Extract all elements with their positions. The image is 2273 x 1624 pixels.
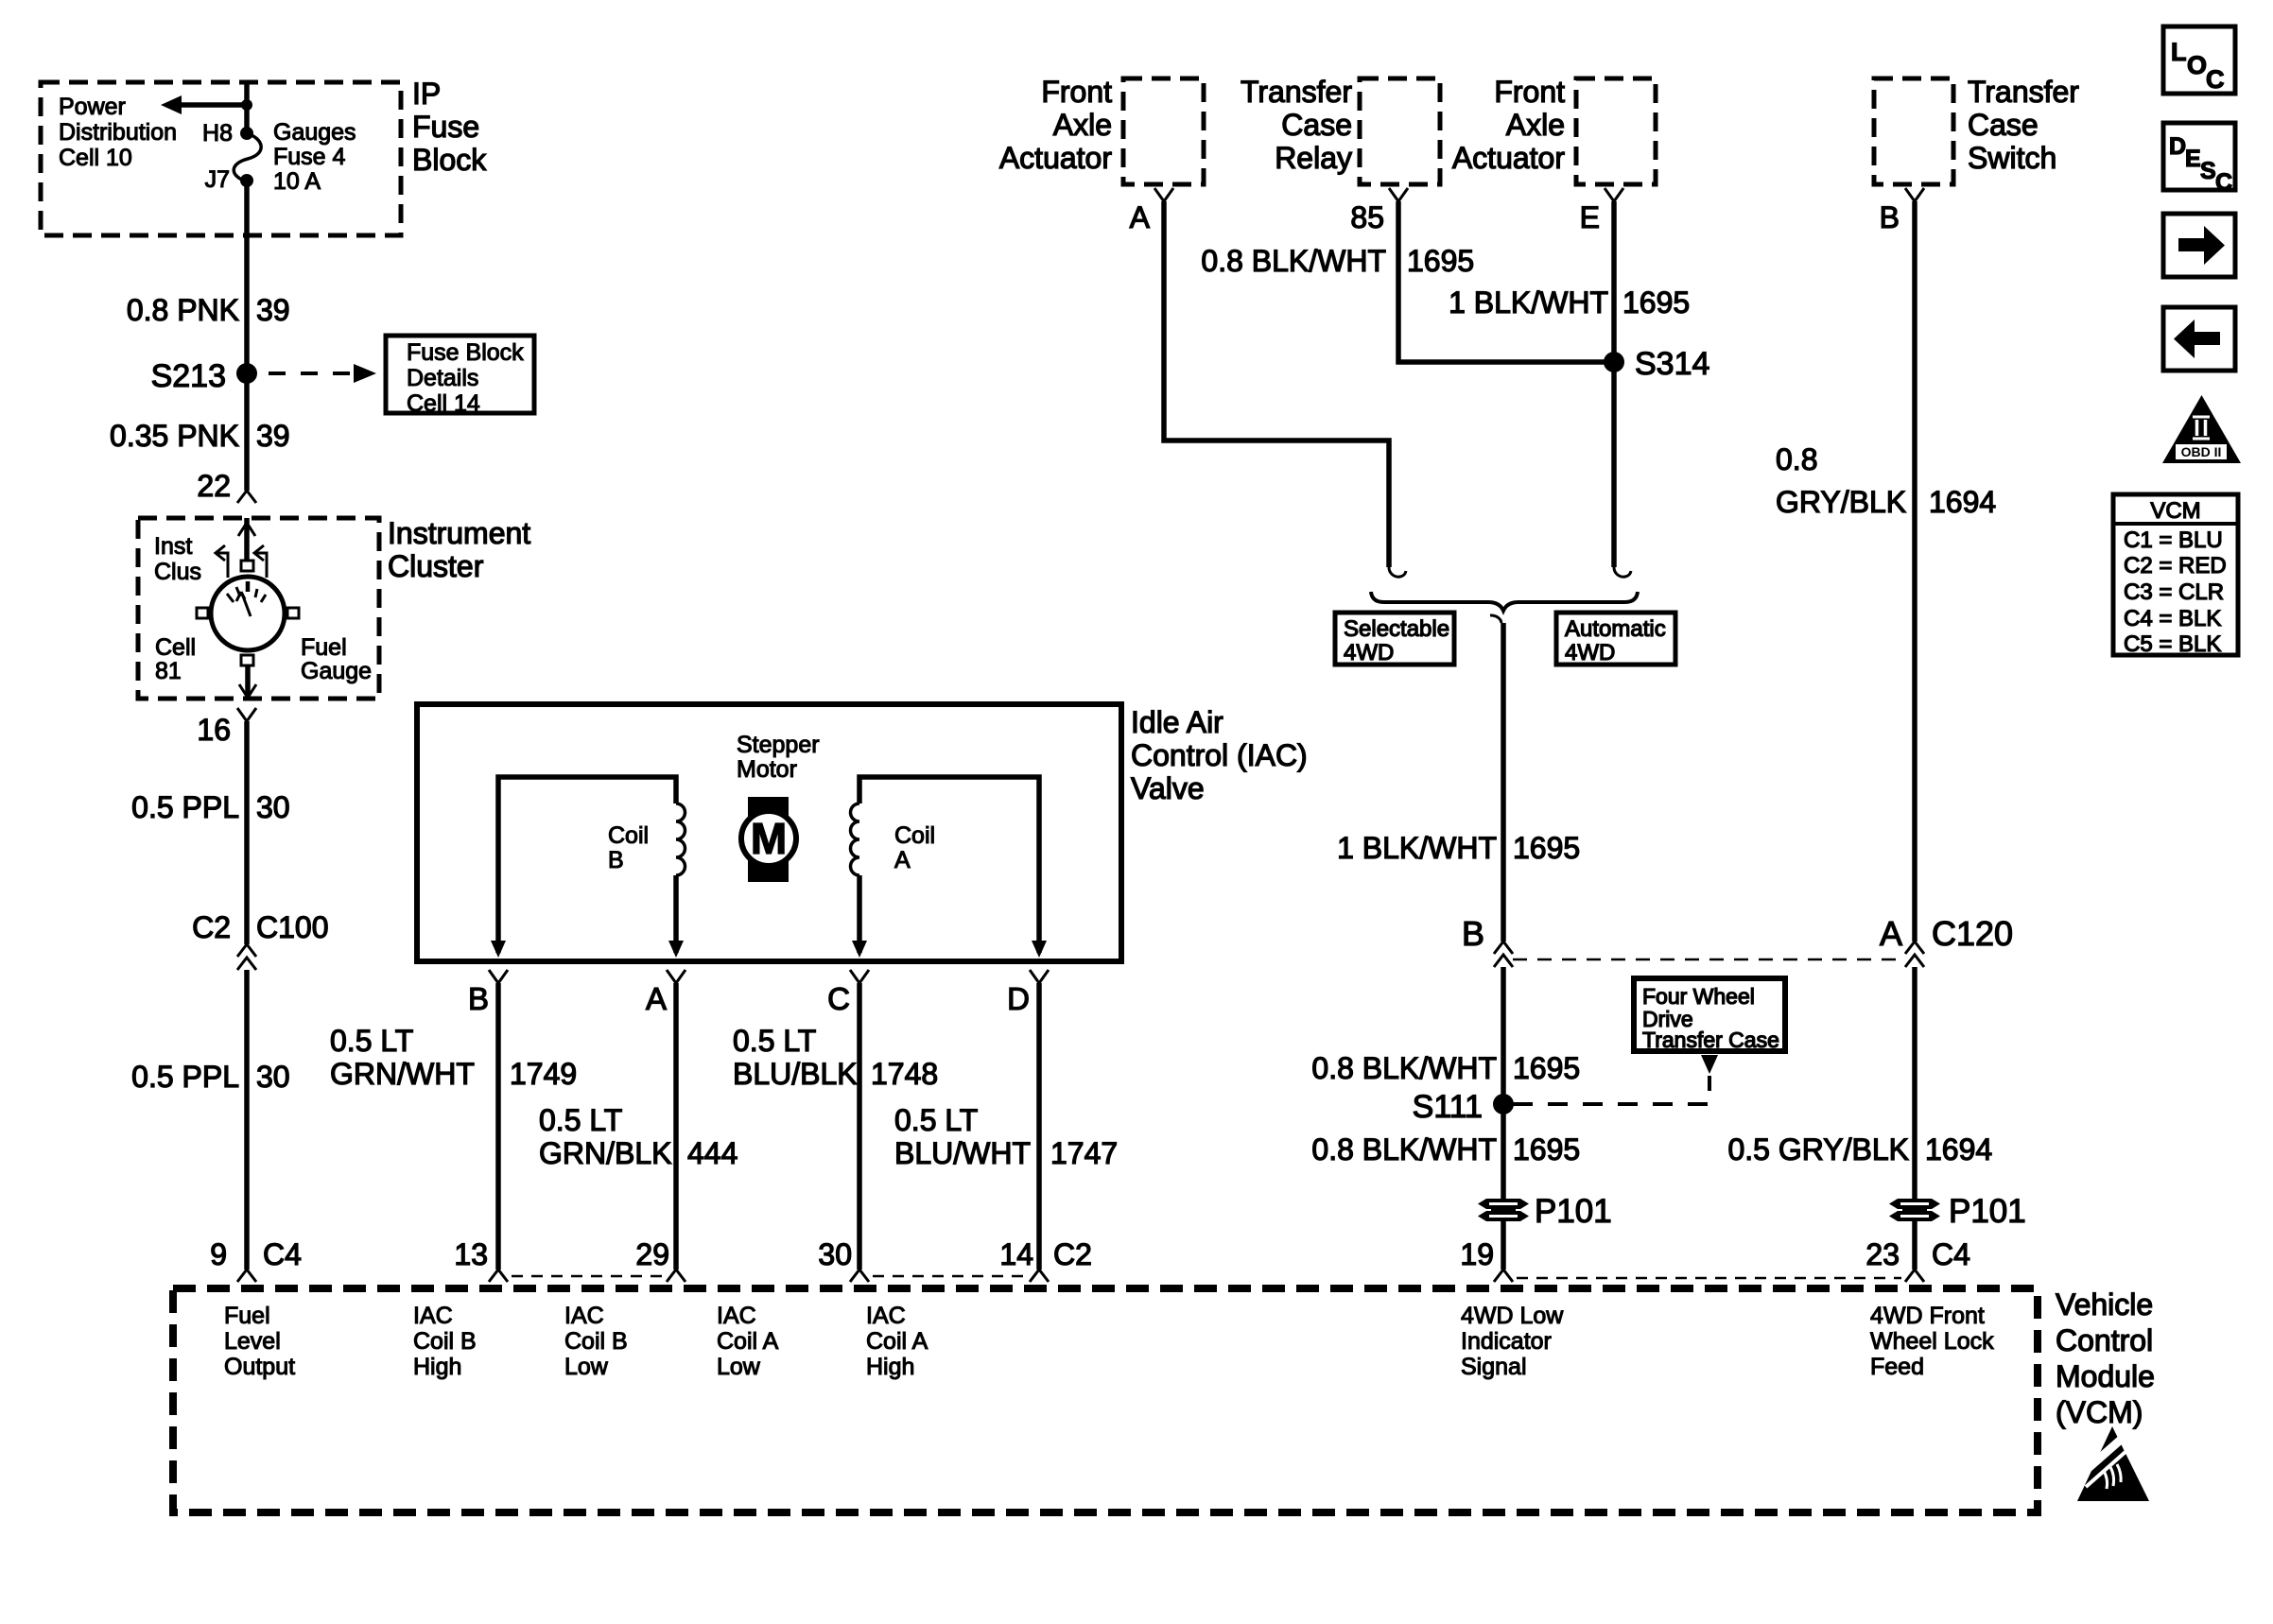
- hook at wire E end: [1614, 567, 1631, 577]
- wire label 0.5 LT GRN/WHT 1749: [330, 1024, 577, 1091]
- svg-text:0.8 BLK/WHT: 0.8 BLK/WHT: [1311, 1051, 1497, 1085]
- dashed arrow to fuse block details: [269, 364, 376, 383]
- svg-text:Transfer Case: Transfer Case: [1642, 1028, 1779, 1052]
- IAC pin letters: [468, 981, 1030, 1016]
- wire label 0.8 BLK/WHT 1695 above S111: [1311, 1051, 1580, 1085]
- fuel gauge body: [197, 561, 299, 665]
- wire out of fuel gauge with down arrow: [239, 665, 256, 698]
- wire transfer case switch to C120: [1912, 201, 1917, 942]
- svg-text:4WD: 4WD: [1565, 640, 1615, 665]
- J7 pin label: [205, 166, 230, 193]
- svg-text:Coil A: Coil A: [717, 1328, 779, 1355]
- svg-text:C100: C100: [256, 910, 329, 944]
- svg-text:A: A: [1130, 200, 1151, 234]
- svg-text:High: High: [413, 1354, 461, 1380]
- svg-text:0.5 LT: 0.5 LT: [539, 1103, 622, 1137]
- wire C120 B to VCM 19: [1501, 967, 1506, 1270]
- svg-text:0.5 GRY/BLK: 0.5 GRY/BLK: [1727, 1132, 1909, 1166]
- svg-text:1695: 1695: [1513, 1132, 1580, 1166]
- wire label 0.8 BLK/WHT 1695 top: [1201, 244, 1474, 278]
- svg-text:A: A: [646, 981, 667, 1016]
- svg-text:0.35 PNK: 0.35 PNK: [110, 419, 239, 453]
- coil B inductor: [676, 803, 685, 875]
- svg-text:C2: C2: [1053, 1237, 1092, 1271]
- svg-text:VCM: VCM: [2150, 498, 2200, 524]
- Front Axle Actuator connector box 1: [1123, 78, 1204, 184]
- Instrument Cluster dashed box: [138, 518, 379, 699]
- svg-text:0.8 BLK/WHT: 0.8 BLK/WHT: [1311, 1132, 1497, 1166]
- svg-text:High: High: [866, 1354, 914, 1380]
- svg-text:1694: 1694: [1925, 1132, 1992, 1166]
- svg-text:GRN/BLK: GRN/BLK: [539, 1136, 671, 1170]
- svg-text:29: 29: [635, 1237, 669, 1271]
- connector C120 double chevron left: [1494, 942, 1513, 967]
- Transfer Case Switch label: [1968, 75, 2079, 175]
- svg-text:C2: C2: [192, 910, 231, 944]
- wire label 1 BLK/WHT 1695 center: [1337, 831, 1580, 865]
- VCM pin number labels: [210, 1237, 1970, 1271]
- svg-text:Signal: Signal: [1461, 1354, 1527, 1380]
- svg-text:C4: C4: [1932, 1237, 1970, 1271]
- Transfer Case Relay connector box: [1360, 78, 1440, 184]
- IAC Coil B High pin label: [413, 1303, 477, 1380]
- connector chevron pin 85: [1389, 188, 1408, 201]
- IP Fuse Block dashed box: [41, 82, 401, 235]
- IAC Coil B Low pin label: [564, 1303, 628, 1380]
- svg-text:B: B: [608, 847, 624, 873]
- 4WD Low Indicator Signal pin label: [1461, 1303, 1564, 1380]
- svg-text:Clus: Clus: [154, 559, 201, 585]
- svg-text:0.8 BLK/WHT: 0.8 BLK/WHT: [1201, 244, 1386, 278]
- svg-text:Case: Case: [1281, 108, 1352, 142]
- svg-text:Details: Details: [407, 365, 478, 391]
- svg-text:Fuse Block: Fuse Block: [407, 339, 524, 366]
- svg-text:Cell 14: Cell 14: [407, 390, 480, 417]
- IAC valve box: [417, 704, 1121, 961]
- wire 16 to C100: [244, 721, 250, 944]
- svg-text:4WD Low: 4WD Low: [1461, 1303, 1564, 1329]
- svg-text:19: 19: [1460, 1237, 1494, 1271]
- svg-text:IAC: IAC: [717, 1303, 756, 1329]
- svg-text:S111: S111: [1413, 1089, 1483, 1125]
- IP Fuse Block label: [412, 77, 487, 177]
- svg-text:Control: Control: [2056, 1323, 2153, 1357]
- VCM dashed box: [173, 1288, 2038, 1512]
- svg-text:O: O: [2187, 51, 2207, 79]
- svg-text:A: A: [1880, 914, 1902, 953]
- J7 terminal dot: [240, 174, 253, 187]
- arrow to power distribution: [161, 95, 247, 114]
- VCM pin chevron 9: [237, 1270, 256, 1282]
- svg-text:85: 85: [1350, 200, 1384, 234]
- wire label 0.35 PNK 39: [110, 419, 290, 453]
- svg-text:0.5 LT: 0.5 LT: [330, 1024, 413, 1058]
- Transfer Case Switch connector box: [1874, 78, 1953, 184]
- 4WD Front Wheel Lock Feed pin label: [1870, 1303, 1994, 1380]
- wire from fuse block top edge to fuse H8: [244, 83, 250, 133]
- IAC Coil A High pin label: [866, 1303, 928, 1380]
- ESD sensitive symbol: [2074, 1426, 2149, 1501]
- pin 85 label: [1350, 200, 1384, 234]
- VCM pin chevron 13: [489, 1270, 508, 1282]
- svg-text:BLU/WHT: BLU/WHT: [894, 1136, 1031, 1170]
- pointer triangle from four wheel drive box: [1701, 1055, 1718, 1074]
- OBD II legend icon: [2162, 395, 2241, 463]
- svg-text:H8: H8: [202, 120, 233, 147]
- coil B loop wiring: [491, 777, 684, 958]
- fuse F4 element: [234, 133, 261, 181]
- LOC legend icon: [2163, 26, 2235, 94]
- coil A loop wiring: [852, 777, 1047, 958]
- svg-text:Cluster: Cluster: [388, 549, 484, 583]
- svg-text:Axle: Axle: [1506, 108, 1565, 142]
- connector chevron pin 22: [237, 491, 256, 503]
- svg-text:23: 23: [1865, 1237, 1900, 1271]
- wire IAC C to VCM 30: [857, 983, 862, 1270]
- Fuel Gauge label: [301, 634, 372, 684]
- svg-text:Fuse 4: Fuse 4: [273, 144, 346, 170]
- brace under actuator wires: [1371, 592, 1638, 611]
- svg-text:Wheel Lock: Wheel Lock: [1870, 1328, 1994, 1355]
- svg-text:IAC: IAC: [413, 1303, 453, 1329]
- Transfer Case Relay label: [1241, 75, 1352, 175]
- svg-text:B: B: [1880, 200, 1900, 234]
- svg-text:C: C: [2215, 169, 2232, 196]
- wire label 0.5 PPL 30 lower: [131, 1060, 289, 1094]
- svg-text:Case: Case: [1968, 108, 2039, 142]
- svg-text:Level: Level: [224, 1328, 281, 1355]
- svg-text:A: A: [894, 847, 911, 873]
- wire C100 to VCM pin 9: [244, 970, 250, 1270]
- pin E label: [1580, 200, 1600, 234]
- svg-text:1695: 1695: [1622, 285, 1690, 320]
- svg-text:IAC: IAC: [866, 1303, 906, 1329]
- svg-text:C: C: [827, 981, 850, 1016]
- svg-text:Coil: Coil: [608, 822, 649, 849]
- wire front axle actuator E: [1611, 201, 1617, 567]
- wire into fuel gauge with up arrow: [238, 518, 255, 561]
- Front Axle Actuator connector box 2: [1576, 78, 1656, 184]
- svg-text:Cell: Cell: [155, 634, 196, 661]
- IAC pin chevron A: [667, 970, 685, 983]
- VCM pin chevron 23: [1905, 1270, 1924, 1282]
- Gauges Fuse 4 10 A label: [273, 119, 356, 195]
- fuel gauge needle: [236, 592, 251, 616]
- connector dashed line 30 to 14: [873, 1275, 1026, 1278]
- wire label 0.5 PPL 30: [131, 790, 289, 824]
- svg-text:Control (IAC): Control (IAC): [1131, 738, 1308, 772]
- svg-text:Output: Output: [224, 1354, 295, 1380]
- svg-text:0.5 LT: 0.5 LT: [733, 1024, 816, 1058]
- wire front axle actuator A: [1164, 201, 1389, 567]
- svg-text:1 BLK/WHT: 1 BLK/WHT: [1449, 285, 1608, 320]
- wire label 1 BLK/WHT 1695: [1449, 285, 1690, 320]
- splice S314: [1604, 346, 1709, 382]
- svg-text:C2 = RED: C2 = RED: [2124, 553, 2227, 579]
- wire below brace with curl: [1490, 615, 1503, 942]
- svg-text:10 A: 10 A: [273, 168, 321, 195]
- pin A label: [1130, 200, 1151, 234]
- svg-text:0.8 PNK: 0.8 PNK: [127, 293, 239, 327]
- svg-text:14: 14: [999, 1237, 1033, 1271]
- wire relay 85 to S314: [1398, 201, 1607, 362]
- branch arrow right to other gauges: [254, 545, 267, 578]
- wire label 0.8 BLK/WHT 1695 below S111: [1311, 1132, 1580, 1166]
- IAC pin chevron B: [489, 970, 508, 983]
- svg-text:Power: Power: [59, 94, 126, 120]
- wire IAC A to VCM 29: [673, 983, 679, 1270]
- VCM pin chevron 14: [1030, 1270, 1049, 1282]
- svg-text:Module: Module: [2056, 1359, 2155, 1393]
- svg-text:1695: 1695: [1513, 1051, 1580, 1085]
- Coil A label: [894, 822, 935, 873]
- junction node to power distribution: [241, 99, 252, 111]
- connector chevron pin B switch: [1905, 188, 1924, 201]
- wire label 0.5 LT BLU/WHT 1747: [894, 1103, 1118, 1170]
- IAC pin chevron C: [850, 970, 869, 983]
- svg-text:0.5 PPL: 0.5 PPL: [131, 790, 239, 824]
- Fuse Block Details Cell 14 box: [386, 336, 534, 417]
- svg-text:Gauges: Gauges: [273, 119, 356, 146]
- Power Distribution Cell 10 label: [59, 94, 177, 171]
- svg-text:Cell 10: Cell 10: [59, 145, 132, 171]
- DESC legend icon: [2163, 123, 2235, 196]
- Stepper Motor label: [737, 732, 820, 783]
- svg-text:Coil B: Coil B: [564, 1328, 628, 1355]
- Fuel Level Output pin label: [224, 1303, 295, 1380]
- svg-text:IAC: IAC: [564, 1303, 604, 1329]
- svg-text:30: 30: [256, 1060, 290, 1094]
- svg-text:Instrument: Instrument: [388, 516, 530, 550]
- svg-text:1694: 1694: [1929, 485, 1996, 519]
- svg-text:GRY/BLK: GRY/BLK: [1776, 485, 1906, 519]
- Instrument Cluster label: [388, 516, 530, 583]
- svg-text:Fuel: Fuel: [224, 1303, 270, 1329]
- Four Wheel Drive Transfer Case box: [1634, 978, 1785, 1052]
- svg-text:Transfer: Transfer: [1241, 75, 1352, 109]
- svg-text:S: S: [2200, 158, 2216, 184]
- connector C120 dashed line: [1513, 959, 1906, 961]
- svg-text:1748: 1748: [871, 1057, 938, 1091]
- svg-text:1695: 1695: [1513, 831, 1580, 865]
- svg-text:Axle: Axle: [1053, 108, 1112, 142]
- svg-text:IP: IP: [412, 77, 441, 111]
- svg-text:S213: S213: [151, 358, 226, 394]
- svg-text:Gauge: Gauge: [301, 658, 372, 684]
- svg-text:Stepper: Stepper: [737, 732, 820, 758]
- svg-text:C1 = BLU: C1 = BLU: [2124, 527, 2223, 553]
- Vehicle Control Module (VCM) label: [2056, 1287, 2155, 1429]
- VCM pin chevron 19: [1494, 1270, 1513, 1282]
- wire C120 A to VCM 23: [1912, 967, 1917, 1270]
- svg-text:0.8: 0.8: [1776, 442, 1817, 476]
- H8 pin label: [202, 120, 233, 147]
- branch arrow left to other gauges: [216, 545, 228, 578]
- splice S213: [151, 358, 257, 394]
- stepper motor M: [741, 797, 796, 882]
- svg-text:OBD II: OBD II: [2181, 444, 2222, 459]
- connector dashed line 19 to 23: [1517, 1277, 1901, 1280]
- pin A label at C120: [1880, 914, 1902, 953]
- pin B label at C120: [1462, 914, 1484, 953]
- svg-text:C: C: [2206, 65, 2225, 94]
- svg-text:Relay: Relay: [1275, 141, 1352, 175]
- VCM pin chevron 30: [850, 1270, 869, 1282]
- Automatic 4WD box: [1556, 613, 1675, 665]
- pin 22 label: [197, 469, 231, 503]
- Front Axle Actuator label 2: [1452, 75, 1566, 175]
- svg-text:S314: S314: [1635, 346, 1709, 382]
- svg-text:Coil B: Coil B: [413, 1328, 477, 1355]
- IAC Coil A Low pin label: [717, 1303, 779, 1380]
- pass-through grommet P101 right: [1889, 1193, 2026, 1230]
- svg-text:Four Wheel: Four Wheel: [1642, 984, 1755, 1009]
- svg-text:39: 39: [256, 419, 290, 453]
- splice S111: [1413, 1089, 1514, 1125]
- svg-text:81: 81: [155, 658, 182, 684]
- svg-text:Front: Front: [1494, 75, 1565, 109]
- svg-text:Actuator: Actuator: [1452, 141, 1566, 175]
- svg-text:444: 444: [687, 1136, 737, 1170]
- wire label 0.5 GRY/BLK 1694: [1727, 1132, 1992, 1166]
- svg-text:30: 30: [818, 1237, 852, 1271]
- Idle Air Control (IAC) Valve label: [1131, 705, 1308, 805]
- forward arrow legend icon: [2163, 214, 2235, 277]
- back arrow legend icon: [2163, 307, 2235, 371]
- svg-text:C4: C4: [263, 1237, 302, 1271]
- wire IAC D to VCM 14: [1036, 983, 1042, 1270]
- svg-text:16: 16: [197, 713, 231, 747]
- svg-text:Selectable: Selectable: [1344, 616, 1449, 642]
- svg-text:39: 39: [256, 293, 290, 327]
- svg-text:Fuel: Fuel: [301, 634, 347, 661]
- svg-text:Actuator: Actuator: [999, 141, 1113, 175]
- pin B label switch: [1880, 200, 1900, 234]
- svg-text:1747: 1747: [1050, 1136, 1118, 1170]
- connector chevron pin 16: [237, 708, 256, 721]
- svg-text:Motor: Motor: [737, 756, 797, 783]
- pin 16 label: [197, 713, 231, 747]
- svg-text:1695: 1695: [1407, 244, 1474, 278]
- fuel gauge dial ticks: [227, 581, 266, 602]
- svg-text:Inst: Inst: [154, 533, 192, 560]
- svg-text:M: M: [751, 814, 787, 863]
- VCM pin chevron 29: [667, 1270, 685, 1282]
- svg-text:Indicator: Indicator: [1461, 1328, 1552, 1355]
- connector chevron pin A: [1154, 188, 1173, 201]
- svg-text:Automatic: Automatic: [1565, 616, 1666, 642]
- svg-text:Distribution: Distribution: [59, 119, 177, 146]
- svg-text:4WD: 4WD: [1344, 640, 1394, 665]
- dashed link S111 to transfer case note: [1513, 1076, 1709, 1104]
- wire label 0.5 LT BLU/BLK 1748: [733, 1024, 938, 1091]
- svg-text:1 BLK/WHT: 1 BLK/WHT: [1337, 831, 1497, 865]
- svg-text:4WD Front: 4WD Front: [1870, 1303, 1985, 1329]
- svg-text:9: 9: [210, 1237, 227, 1271]
- svg-text:Feed: Feed: [1870, 1354, 1924, 1380]
- Selectable 4WD box: [1335, 613, 1454, 665]
- svg-text:E: E: [1580, 200, 1600, 234]
- svg-text:1749: 1749: [510, 1057, 577, 1091]
- Cell 81 label: [155, 634, 196, 684]
- svg-text:0.5 LT: 0.5 LT: [894, 1103, 978, 1137]
- svg-text:D: D: [2169, 133, 2186, 160]
- svg-text:Switch: Switch: [1968, 141, 2056, 175]
- svg-text:J7: J7: [205, 166, 230, 193]
- wire J7 to connector 22: [244, 181, 250, 491]
- svg-text:Low: Low: [564, 1354, 609, 1380]
- svg-text:Block: Block: [412, 143, 487, 177]
- connector C100 double chevron: [237, 944, 256, 970]
- svg-text:GRN/WHT: GRN/WHT: [330, 1057, 475, 1091]
- svg-text:Coil A: Coil A: [866, 1328, 928, 1355]
- svg-text:B: B: [1462, 914, 1484, 953]
- wire label 0.8 PNK 39: [127, 293, 290, 327]
- svg-text:C3 = CLR: C3 = CLR: [2124, 579, 2224, 605]
- svg-text:22: 22: [197, 469, 231, 503]
- svg-text:30: 30: [256, 790, 290, 824]
- connector C120 double chevron right: [1905, 942, 1924, 967]
- svg-text:P101: P101: [1535, 1193, 1612, 1230]
- svg-text:Coil: Coil: [894, 822, 935, 849]
- wire label 0.8 GRY/BLK 1694: [1776, 442, 1996, 519]
- svg-text:Fuse: Fuse: [412, 110, 479, 144]
- svg-text:E: E: [2185, 146, 2201, 172]
- svg-text:C120: C120: [1932, 914, 2013, 953]
- svg-text:Valve: Valve: [1131, 771, 1205, 805]
- wire IAC B to VCM 13: [495, 983, 501, 1270]
- wire label 0.5 LT GRN/BLK 444: [539, 1103, 737, 1170]
- svg-text:0.5 PPL: 0.5 PPL: [131, 1060, 239, 1094]
- VCM connector color legend table: [2113, 494, 2238, 657]
- svg-text:C4 = BLK: C4 = BLK: [2124, 606, 2221, 631]
- svg-text:13: 13: [454, 1237, 488, 1271]
- connector chevron pin E: [1605, 188, 1623, 201]
- svg-text:Front: Front: [1041, 75, 1112, 109]
- svg-text:D: D: [1007, 981, 1030, 1016]
- svg-text:Transfer: Transfer: [1968, 75, 2079, 109]
- svg-text:Vehicle: Vehicle: [2056, 1287, 2153, 1322]
- Coil B label: [608, 822, 649, 873]
- svg-text:(VCM): (VCM): [2056, 1395, 2143, 1429]
- svg-text:B: B: [468, 981, 489, 1016]
- svg-text:C5 = BLK: C5 = BLK: [2124, 631, 2221, 657]
- pass-through grommet P101 left: [1478, 1193, 1612, 1230]
- hook at wire A end: [1389, 567, 1406, 577]
- connector C120 label: [1932, 914, 2013, 953]
- svg-text:L: L: [2171, 38, 2187, 66]
- svg-text:Low: Low: [717, 1354, 761, 1380]
- connector dashed line 13 to 29: [512, 1275, 663, 1278]
- Inst Clus label: [154, 533, 201, 585]
- H8 terminal dot: [240, 127, 253, 140]
- Front Axle Actuator label 1: [999, 75, 1113, 175]
- svg-text:P101: P101: [1949, 1193, 2026, 1230]
- connector C100 labels: [192, 910, 328, 944]
- IAC pin chevron D: [1030, 970, 1049, 983]
- svg-text:Idle Air: Idle Air: [1131, 705, 1223, 739]
- svg-text:BLU/BLK: BLU/BLK: [733, 1057, 858, 1091]
- coil A inductor: [851, 803, 860, 875]
